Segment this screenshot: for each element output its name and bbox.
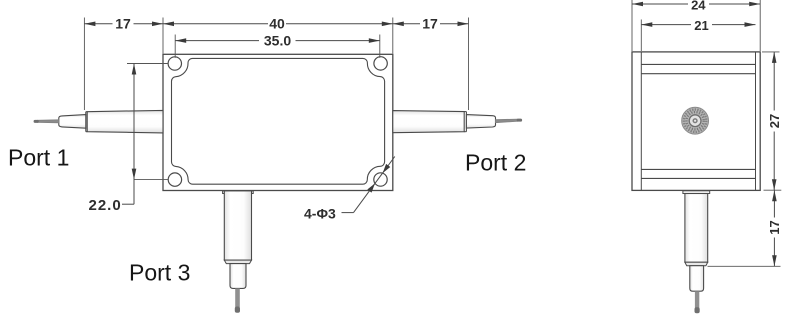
mounting hole bottom-right	[374, 173, 387, 186]
side view: bottom groove lines	[641, 168, 755, 170]
dimension 17: bottom tick (tube end)	[708, 265, 781, 267]
svg-text:Port 3: Port 3	[129, 260, 190, 286]
port 3 tube collar	[223, 191, 254, 194]
side view: body rectangle	[632, 52, 760, 191]
svg-text:24: 24	[691, 0, 706, 12]
dimension 27: mid tick (body bottom)	[764, 189, 782, 191]
dimension 27: top tick	[762, 51, 780, 53]
port 1 tube end cap	[85, 112, 87, 132]
svg-text:21: 21	[694, 18, 708, 33]
port 2 tube	[393, 111, 464, 133]
side view: top groove lines	[641, 63, 755, 65]
port 2 tube end cap	[465, 112, 467, 132]
dimension 21: extension line	[640, 20, 642, 52]
port 1 fiber	[38, 120, 59, 123]
dimension line 27	[773, 52, 775, 111]
port 2 fiber	[496, 119, 518, 123]
dimension 35.0: extension lines	[174, 35, 176, 58]
side view: knurled knob outer	[682, 107, 709, 134]
dimension line 17 (side view)	[773, 190, 775, 217]
side view: left inner edge	[640, 52, 642, 191]
port 1 ferrule	[59, 115, 86, 129]
port 3 tube end cap	[224, 260, 251, 264]
left view: cover plate outline with corner reliefs	[171, 58, 384, 184]
svg-text:4-Φ3: 4-Φ3	[304, 206, 336, 222]
svg-text:40: 40	[269, 16, 285, 32]
label 4-PHI3 leader line	[342, 212, 354, 214]
dimension 22.0: vertical dimension line	[133, 64, 135, 205]
dimension line 17-40-17 segments	[84, 23, 112, 25]
dimension 22.0: bottom leader at hole center	[134, 179, 168, 181]
port 3 ferrule	[230, 264, 246, 289]
side view port fiber	[695, 291, 699, 308]
side view port tube	[685, 194, 708, 263]
mounting hole top-right	[374, 57, 387, 70]
port 1 tube	[87, 110, 163, 132]
port 3 fiber	[235, 288, 240, 307]
dimension line 24	[632, 3, 688, 5]
dimension 40: left extension line (body left edge)	[162, 18, 164, 54]
dimension 40: right extension line (body right edge)	[392, 18, 394, 54]
port 2 ferrule	[466, 115, 495, 129]
dimension 17 right: extension line	[468, 18, 470, 111]
side view port tube end cap	[685, 262, 708, 266]
dimension line 21	[641, 24, 691, 26]
arrowheads top chain	[84, 22, 95, 27]
left view: body outer rectangle	[163, 54, 393, 190]
label 4-PHI3 arrowheads	[367, 183, 375, 192]
svg-text:27: 27	[767, 114, 782, 128]
svg-text:17: 17	[422, 16, 438, 32]
side view: right inner edge	[755, 52, 757, 191]
svg-text:Port 1: Port 1	[8, 145, 69, 171]
dimension 24: extension lines	[631, 0, 633, 51]
side view: knob inner ring	[689, 115, 701, 127]
svg-text:35.0: 35.0	[264, 33, 291, 49]
dimension 22.0: top leader at hole center	[127, 63, 168, 65]
side view: knob center dot	[693, 118, 698, 123]
svg-text:22.0: 22.0	[89, 197, 122, 214]
side view port ferrule	[690, 266, 704, 292]
port 3 tube	[224, 191, 251, 260]
dimension 17 left: extension line	[83, 18, 85, 111]
mounting hole top-left	[168, 57, 181, 70]
svg-text:17: 17	[115, 16, 131, 32]
dimension 22.0: connector to text	[122, 203, 134, 205]
side view port tube collar	[683, 191, 710, 194]
svg-text:Port 2: Port 2	[465, 150, 526, 176]
svg-text:17: 17	[767, 220, 782, 234]
dimension line 35.0	[175, 40, 259, 42]
mounting hole bottom-left	[168, 173, 181, 186]
